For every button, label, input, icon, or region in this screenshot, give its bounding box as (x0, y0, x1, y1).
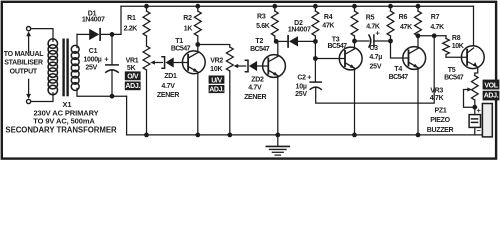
label R5 (366, 15, 380, 31)
svg-text:2.2K: 2.2K (124, 25, 138, 32)
label X1 (5, 100, 117, 135)
wiper VR1 (150, 60, 162, 64)
wire positive supply rail (121, 5, 474, 7)
transistor T4 (403, 47, 426, 70)
node C3 R6 (388, 39, 393, 44)
label VR2 U/V ADJ (209, 76, 225, 94)
label T2 (250, 38, 270, 53)
label ZD1 (157, 73, 179, 99)
node VR3 buzzer (472, 105, 477, 110)
svg-text:T1: T1 (175, 38, 183, 45)
svg-text:10K: 10K (210, 66, 222, 73)
svg-text:ZENER: ZENER (157, 92, 179, 99)
svg-text:U/V: U/V (211, 77, 222, 84)
svg-text:O/V: O/V (127, 74, 139, 81)
svg-text:PZ1: PZ1 (435, 108, 447, 115)
svg-text:BUZZER: BUZZER (427, 127, 454, 134)
zener ZD2 (245, 60, 268, 71)
svg-text:SECONDARY TRANSFORMER: SECONDARY TRANSFORMER (5, 126, 117, 135)
transistor T5 (461, 46, 484, 69)
svg-text:OUTPUT: OUTPUT (10, 68, 38, 75)
potentiometer VR1 (143, 46, 150, 135)
node T3 collector (352, 39, 357, 44)
wire ground rail left riser (126, 96, 128, 135)
wire R7 to R8 (418, 35, 446, 37)
svg-text:4.7V: 4.7V (161, 83, 175, 90)
svg-text:BC547: BC547 (444, 74, 464, 81)
buzzer PZ1 body (482, 104, 492, 137)
svg-text:C2: C2 (297, 75, 306, 82)
svg-text:ZD2: ZD2 (251, 77, 264, 84)
label R6 (399, 14, 412, 31)
label C2 (295, 73, 312, 99)
svg-text:R5: R5 (366, 15, 375, 22)
svg-text:25V: 25V (370, 64, 382, 71)
svg-text:STABILISER: STABILISER (4, 60, 43, 67)
svg-text:R4: R4 (324, 14, 333, 21)
transistor T1 (182, 51, 205, 74)
wiper VR3 (464, 87, 475, 107)
svg-text:R8: R8 (452, 35, 461, 42)
label D2 (288, 20, 311, 34)
label R1 (124, 15, 138, 32)
wire C2 bottom (316, 36, 435, 103)
wire T4 emitter (417, 68, 419, 135)
svg-text:+: + (375, 28, 380, 37)
svg-text:25V: 25V (85, 65, 97, 72)
wire R8 to T5 base (446, 56, 467, 58)
wire input top (31, 29, 53, 42)
potentiometer VR3 (472, 76, 479, 115)
capacitor C3 (355, 35, 391, 47)
diode D2 (275, 36, 316, 47)
node rail R1 (144, 4, 149, 9)
node rail R7 (416, 4, 421, 9)
svg-text:T5: T5 (448, 67, 456, 74)
wire T1 collector to VR2 (198, 45, 230, 48)
label buzzer plus (477, 106, 482, 115)
node rail R6 (388, 4, 393, 9)
node rail R4 (313, 4, 318, 9)
node T3 base tap (313, 56, 318, 61)
resistor R3 (271, 6, 278, 41)
svg-text:ADJ.: ADJ. (209, 86, 224, 93)
svg-text:1N4007: 1N4007 (82, 16, 105, 23)
svg-text:5K: 5K (127, 65, 136, 72)
svg-text:PIEZO: PIEZO (430, 117, 450, 124)
wire C1 bottom (111, 71, 113, 97)
border frame (2, 2, 496, 159)
label T4 (389, 66, 409, 81)
svg-text:1K: 1K (184, 25, 193, 32)
resistor R7 (415, 6, 422, 36)
svg-text:1N4007: 1N4007 (288, 27, 311, 34)
wire T3 base (315, 58, 345, 60)
svg-text:47K: 47K (322, 23, 334, 30)
node rail R5 (352, 4, 357, 9)
node T2 collector (274, 39, 279, 44)
svg-text:4.7K: 4.7K (430, 24, 444, 31)
label T1 (171, 38, 191, 53)
terminal input top (27, 27, 31, 31)
label VR1 (126, 58, 139, 72)
svg-text:4.7K: 4.7K (430, 95, 444, 102)
svg-text:5.6K: 5.6K (256, 23, 270, 30)
node VR1 rail (144, 133, 149, 138)
svg-text:ZD1: ZD1 (164, 73, 177, 80)
svg-text:T2: T2 (255, 38, 263, 45)
wire T3 emitter (354, 69, 356, 135)
svg-text:47K: 47K (400, 24, 412, 31)
wire T3 collector (354, 41, 356, 48)
node T1 collector (195, 42, 200, 47)
resistor R5 (351, 6, 358, 41)
svg-text:+: + (307, 73, 312, 82)
resistor R8 (443, 36, 450, 57)
label R3 (256, 13, 270, 30)
svg-text:TO 9V AC, 500mA: TO 9V AC, 500mA (33, 117, 95, 126)
label input (4, 51, 45, 76)
resistor R4 (312, 6, 319, 41)
wire buzzer negative (474, 127, 476, 134)
wire T1 emitter (197, 72, 199, 134)
transformer X1 secondary winding (71, 45, 79, 90)
wire input bottom (31, 93, 53, 102)
label PZ1 (427, 108, 454, 135)
diode D1 (77, 29, 121, 40)
node VR2 rail (227, 133, 232, 138)
svg-text:R1: R1 (127, 15, 136, 22)
resistor R1 (143, 6, 150, 46)
label VR3 (430, 87, 444, 102)
wire rail left drop (120, 6, 122, 34)
transformer X1 core (62, 39, 68, 97)
svg-text:R3: R3 (257, 13, 266, 20)
svg-text:BC547: BC547 (171, 46, 191, 53)
label R2 (183, 15, 192, 32)
svg-text:R6: R6 (399, 14, 408, 21)
svg-text:VR2: VR2 (210, 57, 223, 64)
svg-text:BC547: BC547 (327, 43, 347, 50)
node T2 emitter rail (275, 133, 280, 138)
node R7 T4 (416, 33, 421, 38)
label VR1 O/V ADJ (125, 71, 141, 90)
capacitor C2 (310, 82, 321, 89)
resistor R2 (194, 6, 201, 44)
svg-text:BC547: BC547 (389, 74, 409, 81)
svg-text:VR1: VR1 (126, 58, 139, 65)
zener ZD1 (162, 57, 188, 68)
svg-text:10K: 10K (452, 43, 464, 50)
node C2 return (432, 33, 437, 38)
label C1 (83, 48, 109, 72)
node C1 top (110, 32, 115, 37)
capacitor C1 (106, 65, 118, 72)
wire secondary bottom lead (77, 89, 127, 97)
terminal input bottom (27, 99, 31, 103)
svg-text:R2: R2 (183, 15, 192, 22)
transformer X1 primary winding (48, 39, 57, 95)
wire T1 collector (197, 45, 199, 53)
svg-text:TO MANUAL: TO MANUAL (4, 51, 45, 58)
svg-text:VR3: VR3 (430, 87, 443, 94)
svg-text:C3: C3 (369, 45, 378, 52)
svg-text:4.7µ: 4.7µ (369, 54, 382, 61)
svg-text:BC547: BC547 (250, 46, 270, 53)
svg-text:25V: 25V (295, 91, 307, 98)
svg-text:+: + (477, 106, 482, 115)
buzzer PZ1 element (469, 115, 480, 128)
node D2 R4 (313, 39, 318, 44)
label R7 (430, 14, 444, 31)
transistor T2 (263, 55, 286, 78)
wire T4 collector (417, 36, 419, 48)
svg-text:ADJ.: ADJ. (125, 83, 140, 90)
arrow input top (26, 31, 31, 52)
wire ground rail (127, 134, 493, 136)
node C1 bottom (110, 94, 115, 99)
label C3 (369, 28, 382, 70)
label T5 (444, 67, 464, 81)
resistor R6 (387, 6, 394, 41)
svg-text:+: + (104, 54, 109, 63)
potentiometer VR2 (226, 47, 233, 135)
label buzzer minus (477, 126, 482, 135)
ground (266, 135, 289, 155)
wire secondary top lead (76, 34, 78, 47)
wire T4 base (391, 41, 409, 58)
node T4 emitter rail (416, 133, 421, 138)
wire C1 top (111, 34, 113, 64)
svg-text:ADJ.: ADJ. (484, 93, 499, 100)
node rail R2 (195, 4, 200, 9)
wire R4 down (314, 41, 316, 82)
svg-text:T4: T4 (394, 66, 402, 73)
svg-text:R7: R7 (431, 14, 440, 21)
svg-text:1000µ: 1000µ (83, 57, 101, 64)
label D1 (82, 11, 105, 24)
node T1 emitter rail (195, 133, 200, 138)
transistor T3 (339, 47, 362, 70)
wire T5 emitter (475, 67, 478, 75)
svg-text:VOL: VOL (484, 82, 498, 89)
svg-text:4.7V: 4.7V (248, 85, 262, 92)
svg-text:ZENER: ZENER (244, 94, 266, 101)
node rail R3 (272, 4, 277, 9)
label R8 (452, 35, 464, 50)
label VR3 VOL ADJ (483, 80, 500, 101)
wire T2 emitter (277, 76, 279, 135)
label VR2 (210, 57, 223, 72)
arrow input bottom (26, 79, 31, 99)
svg-text:C1: C1 (89, 48, 98, 55)
label ZD2 (244, 77, 266, 101)
label R4 (322, 14, 334, 30)
label T3 (327, 36, 347, 50)
wire T5 collector (473, 6, 475, 46)
svg-text:10µ: 10µ (296, 83, 307, 90)
wire T2 collector (277, 41, 279, 56)
node T3 emitter rail (352, 133, 357, 138)
wiper VR2 (234, 64, 246, 68)
